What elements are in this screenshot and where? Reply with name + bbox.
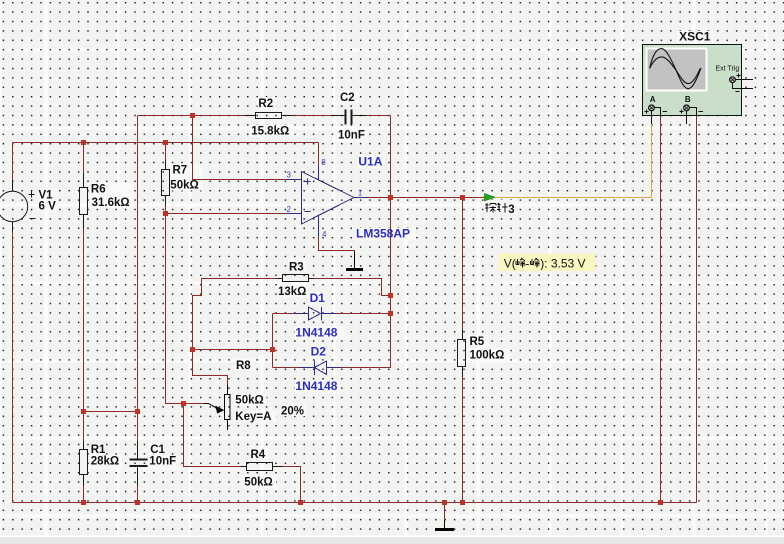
wire V+ rail top (13, 142, 319, 144)
junction R3 right (388, 293, 393, 298)
svg-text:13kΩ: 13kΩ (278, 286, 306, 298)
svg-text:50kΩ: 50kΩ (170, 179, 198, 191)
svg-text:B: B (685, 95, 691, 104)
wire R2 row left (138, 115, 245, 117)
junction D1 right (388, 311, 393, 316)
svg-text:31.6kΩ: 31.6kΩ (92, 197, 130, 209)
oscilloscope trace B (650, 57, 701, 84)
svg-text:3: 3 (287, 171, 292, 180)
svg-text:Ext Trig: Ext Trig (716, 66, 740, 73)
svg-text:3: 3 (508, 204, 514, 216)
svg-text:15.8kΩ: 15.8kΩ (251, 126, 289, 138)
junction output C2 (388, 195, 393, 200)
wire bottom ground rail (13, 502, 697, 504)
svg-text:R5: R5 (470, 336, 485, 348)
svg-text:LM358AP: LM358AP (356, 227, 410, 241)
svg-text:D2: D2 (311, 345, 327, 359)
scope terminal A (649, 105, 655, 111)
svg-text:1N4148: 1N4148 (295, 325, 337, 339)
wire pin4 to ground (319, 238, 355, 251)
wire R2 to C2 (294, 115, 332, 117)
wire R7 bottom stub (165, 206, 167, 214)
svg-text:A: A (650, 95, 656, 104)
wire limiter left link (193, 349, 273, 351)
svg-text:2: 2 (287, 205, 292, 214)
svg-text:R6: R6 (91, 183, 106, 195)
svg-text:XSC1: XSC1 (679, 30, 711, 44)
wire pot top link (193, 350, 228, 386)
wire diode left column (272, 314, 274, 368)
resistor R3 (278, 275, 315, 282)
svg-text:R4: R4 (251, 449, 266, 461)
wire R3 left link (193, 279, 278, 350)
svg-text:R1: R1 (91, 444, 106, 456)
wire D1 row right (337, 313, 391, 315)
scope terminal A stubs (645, 108, 668, 125)
svg-text:28kΩ: 28kΩ (91, 456, 119, 468)
wire inv column to wiper (166, 214, 205, 404)
svg-text:50kΩ: 50kΩ (244, 476, 272, 488)
probe 3 green arrow (485, 194, 495, 201)
wire R6 bottom to R1 (83, 229, 85, 442)
svg-text:1: 1 (358, 188, 363, 197)
svg-text:Key=A: Key=A (235, 411, 271, 423)
wire probe to scope A plus (orange) (495, 124, 652, 198)
resistor R6 (80, 174, 88, 229)
svg-text:100kΩ: 100kΩ (470, 349, 505, 361)
svg-text:C1: C1 (150, 444, 165, 456)
resistor R4 (241, 463, 284, 471)
junction rail C1 (135, 500, 140, 505)
svg-text:50kΩ: 50kΩ (235, 395, 263, 407)
op-amp U1A (286, 166, 368, 238)
wire R5 bottom (462, 377, 464, 503)
junction diode column left (270, 347, 275, 352)
junction rail R1 (81, 500, 86, 505)
svg-text:6 V: 6 V (39, 201, 57, 213)
svg-text:): 3.53 V: ): 3.53 V (540, 256, 585, 270)
wire R1 bottom stub (83, 486, 85, 503)
wire ground stub bottom (444, 503, 446, 521)
wire scope A minus drop (660, 117, 662, 503)
svg-text:10nF: 10nF (149, 456, 176, 468)
svg-text:1N4148: 1N4148 (295, 379, 337, 393)
junction rail scope A (658, 500, 663, 505)
junction R6 top (81, 140, 86, 145)
wire pin8 drop (318, 143, 320, 167)
ground bottom center (435, 521, 454, 532)
oscilloscope XSC1 body (643, 45, 742, 116)
probe label: zhen (CJK) (497, 203, 508, 213)
svg-text:C2: C2 (340, 92, 355, 104)
junction output probe (460, 195, 465, 200)
wire output to R3 column (390, 198, 392, 296)
wire scope B minus drop (696, 117, 698, 503)
resistor R2 (244, 113, 294, 119)
wire output row (368, 197, 485, 199)
junction bias right (135, 409, 140, 414)
scope Ext Trig stubs (733, 74, 754, 92)
wire C2 to right column (367, 115, 391, 117)
wire D1 to D2 column (342, 314, 391, 368)
wire noninv drop (193, 116, 287, 180)
wire R5 top (462, 198, 464, 330)
wire C1 bottom stub (137, 467, 139, 503)
svg-text:8: 8 (321, 158, 326, 167)
svg-text:20%: 20% (281, 405, 304, 417)
diode D1 (294, 307, 337, 321)
wire V1 top lead (12, 143, 14, 181)
svg-text:R7: R7 (173, 164, 188, 176)
svg-text:10nF: 10nF (338, 130, 365, 142)
wire D2 row left (273, 367, 300, 369)
junction noninv R2 (190, 113, 195, 118)
probe measurement yellow box (499, 253, 596, 271)
svg-text:4: 4 (322, 230, 327, 239)
potentiometer R8 body (204, 385, 230, 430)
svg-text:-: - (525, 256, 529, 270)
junction inv R7 (163, 211, 168, 216)
voltage source V1 (0, 180, 36, 232)
svg-text:R8: R8 (236, 360, 251, 372)
junction rail ground (442, 500, 447, 505)
svg-text:U1A: U1A (358, 154, 382, 168)
ground under op-amp (346, 251, 363, 272)
wire C2 output column (390, 116, 392, 198)
junction rail R5 (460, 500, 465, 505)
svg-text:R3: R3 (289, 261, 304, 273)
wire D1 row left (273, 313, 294, 315)
scope terminal B (684, 105, 690, 111)
probe label: tan (CJK) (485, 203, 496, 213)
junction limiter left (190, 347, 195, 352)
svg-text:V(: V( (504, 256, 516, 270)
wire C1 column from R2 (137, 116, 139, 442)
resistor R5 (458, 330, 466, 378)
junction wiper (181, 401, 186, 406)
scope terminal Ext Trig (730, 77, 736, 83)
wire R6 top stub (83, 143, 85, 174)
capacitor C1 (130, 459, 148, 468)
resistor R1 (80, 442, 88, 486)
junction bias left (81, 409, 86, 414)
wire bias link y412 (84, 411, 138, 413)
junction R7 top (163, 140, 168, 145)
scope terminal B stubs (680, 108, 704, 125)
wire R7 top stub (165, 143, 167, 161)
svg-text:D1: D1 (310, 291, 326, 305)
wire V1 bottom to rail (12, 232, 14, 503)
wire wiper to R4 drop (184, 404, 241, 467)
svg-text:R2: R2 (258, 98, 273, 110)
oscilloscope trace A (650, 49, 701, 89)
bottom scrollbar strip (0, 536, 784, 544)
junction rail R4 (298, 500, 303, 505)
wire R4 right to rail (283, 467, 301, 503)
wire R3 to D1 column (390, 296, 392, 314)
diode D2 (299, 361, 342, 376)
potentiometer R8 wiper arrowhead (215, 406, 224, 414)
wire R3 right link (314, 279, 391, 296)
wire inv input row (166, 213, 287, 215)
capacitor C2 (345, 110, 353, 125)
resistor R7 (162, 160, 170, 206)
